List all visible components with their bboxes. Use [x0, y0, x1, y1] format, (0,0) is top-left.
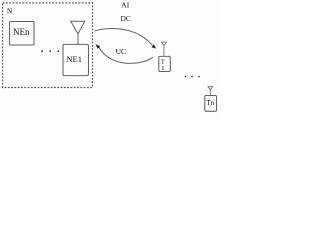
svg-text:UC: UC — [116, 47, 126, 56]
svg-text:1: 1 — [161, 65, 164, 72]
svg-text:AI: AI — [121, 1, 129, 10]
svg-text:DC: DC — [120, 14, 130, 23]
svg-text:NEn: NEn — [13, 27, 30, 37]
svg-text:N: N — [7, 6, 13, 15]
svg-text:Tn: Tn — [206, 99, 214, 107]
svg-text:NE1: NE1 — [66, 54, 82, 64]
